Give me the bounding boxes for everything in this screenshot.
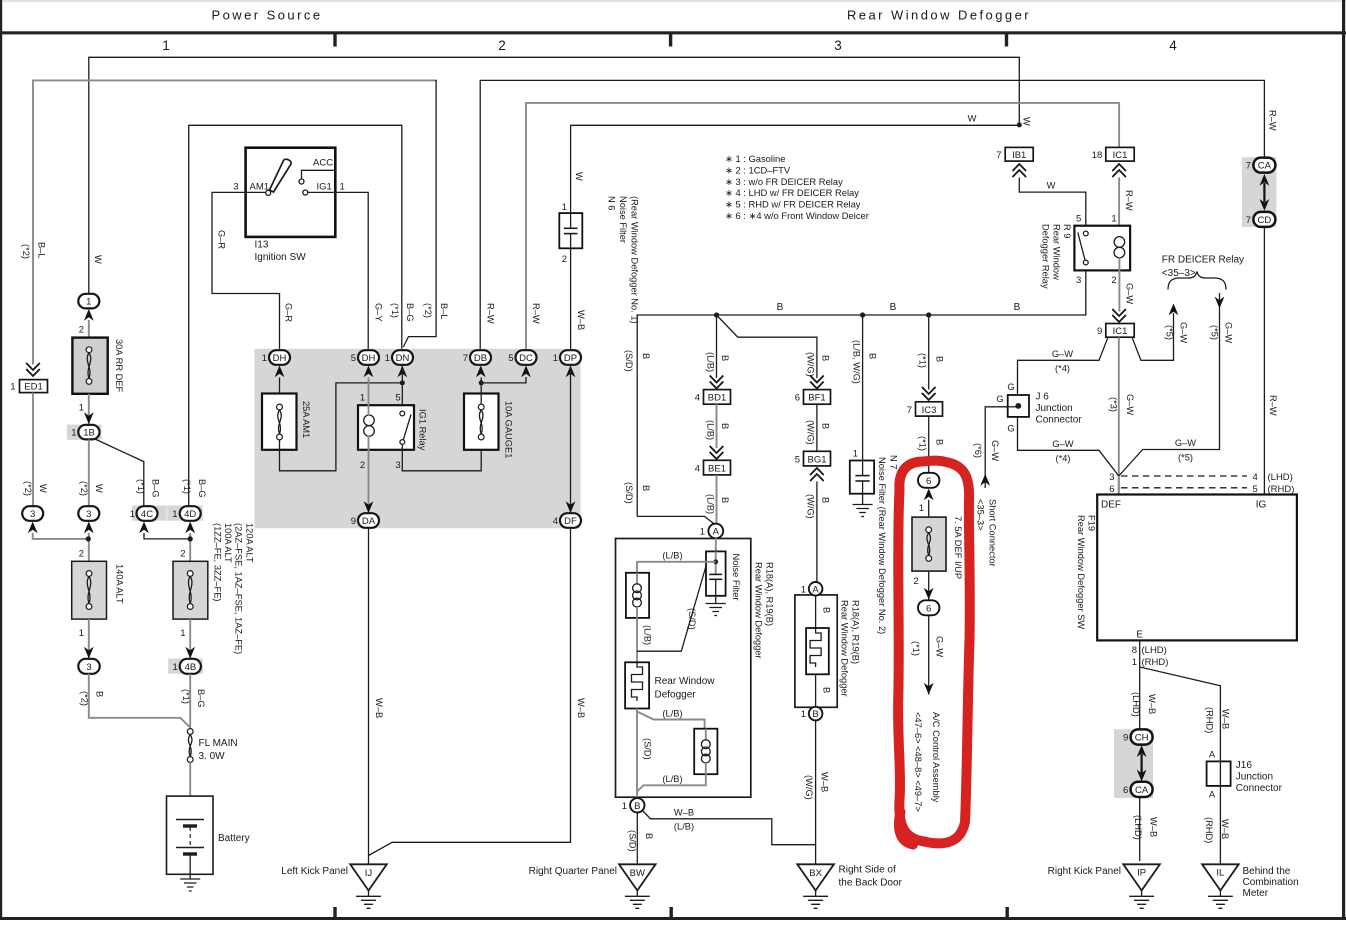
wire B to BX <box>643 811 816 845</box>
connector ED1 <box>10 363 47 393</box>
svg-text:W–B: W–B <box>576 698 586 718</box>
connector DC <box>508 350 536 377</box>
svg-text:B: B <box>94 691 104 697</box>
svg-text:B: B <box>777 302 784 313</box>
svg-text:(LHD): (LHD) <box>1131 692 1141 717</box>
wire bus to BF1 <box>717 315 817 378</box>
bottom page border <box>0 917 1346 920</box>
svg-text:6: 6 <box>1109 484 1114 495</box>
wire node to DC <box>481 377 526 383</box>
wire FL MAIN to battery <box>189 762 191 820</box>
svg-text:<47–6> <48–8> <49–7>: <47–6> <48–8> <49–7> <box>913 712 923 812</box>
svg-text:B: B <box>720 423 730 429</box>
connector A circle <box>637 516 723 538</box>
svg-text:∗ 6 : ∗4 w/o Front Window Deic: ∗ 6 : ∗4 w/o Front Window Deicer <box>725 210 869 221</box>
ground BW <box>529 864 656 908</box>
wire connector3 to node <box>33 533 88 539</box>
svg-text:1: 1 <box>622 801 627 812</box>
fuse 30A RR DEF <box>72 338 124 394</box>
svg-text:IC3: IC3 <box>922 405 937 416</box>
svg-text:N 7: N 7 <box>889 455 899 469</box>
svg-text:B: B <box>812 709 818 720</box>
wire BD1 to BE1 <box>716 404 718 448</box>
svg-text:4: 4 <box>695 393 700 404</box>
svg-text:(L/B): (L/B) <box>662 709 682 719</box>
wire DH5 to coil <box>368 378 370 416</box>
svg-text:N 6: N 6 <box>607 196 617 210</box>
svg-text:A/C Control Assembly: A/C Control Assembly <box>931 712 941 803</box>
svg-text:10A GAUGE1: 10A GAUGE1 <box>504 401 514 458</box>
svg-text:6: 6 <box>926 476 931 487</box>
svg-text:(LHD): (LHD) <box>1142 645 1167 656</box>
wire BE1 to A <box>716 475 718 525</box>
wire W top horizontal y57 <box>89 57 1020 301</box>
wire 1B diagonal to 4C <box>95 439 144 506</box>
junction connector J16 <box>1207 750 1283 801</box>
ground battery <box>180 874 200 891</box>
svg-text:9: 9 <box>351 516 356 527</box>
wire IG1 pin1 to DH5 <box>308 192 368 350</box>
svg-text:(*5): (*5) <box>1178 453 1193 463</box>
svg-text:W–B: W–B <box>1147 694 1157 714</box>
svg-text:BE1: BE1 <box>708 463 726 474</box>
wire 4D to 100A fuse <box>189 533 191 562</box>
svg-text:(W/G): (W/G) <box>806 494 816 519</box>
svg-text:IC1: IC1 <box>1113 326 1128 337</box>
wire relay pin3 to fuse GAUGE1 <box>402 440 481 471</box>
svg-text:18: 18 <box>1092 150 1103 161</box>
wire 3 to FL MAIN <box>89 674 190 728</box>
defogger element <box>625 662 715 708</box>
noise filter N6 <box>559 172 639 324</box>
bus wire B <box>637 270 1086 516</box>
svg-text:(*1): (*1) <box>182 479 192 494</box>
svg-text:G–W: G–W <box>990 440 1000 461</box>
wire 3 to 140A fuse <box>88 533 90 562</box>
internal noise filter <box>706 551 741 615</box>
svg-text:B: B <box>935 356 945 362</box>
svg-text:B: B <box>868 353 878 359</box>
svg-text:2: 2 <box>498 38 506 53</box>
svg-text:W: W <box>1022 117 1032 126</box>
svg-text:Behind the: Behind the <box>1243 866 1291 877</box>
svg-text:DN: DN <box>396 353 410 364</box>
svg-text:(*1): (*1) <box>911 641 921 656</box>
svg-text:25A AM1: 25A AM1 <box>301 401 311 438</box>
F19 pin labels and dashed LHD/RHD links <box>1109 472 1294 495</box>
wire coil to DA <box>368 436 370 514</box>
svg-text:1: 1 <box>1132 657 1137 668</box>
connector 1B <box>67 425 102 440</box>
svg-text:I13: I13 <box>255 240 269 251</box>
battery <box>167 796 250 874</box>
connector DN <box>385 350 413 377</box>
wire fuse to connector 6 lower <box>928 571 930 600</box>
svg-text:W–B: W–B <box>1221 709 1231 729</box>
connector 1 oval top <box>78 294 99 321</box>
svg-text:7: 7 <box>1246 161 1251 172</box>
svg-text:2: 2 <box>913 576 918 587</box>
wire A to internal noise filter <box>715 538 717 553</box>
svg-text:B–G: B–G <box>196 689 206 708</box>
ignition block gray box <box>255 349 581 528</box>
svg-text:(L/B): (L/B) <box>662 774 682 784</box>
fuse 7.5A DEF I/UP <box>912 516 963 579</box>
svg-text:(*6): (*6) <box>973 443 983 458</box>
svg-text:∗ 5 : RHD w/ FR DEICER Relay: ∗ 5 : RHD w/ FR DEICER Relay <box>725 199 861 210</box>
svg-text:B: B <box>821 607 831 613</box>
bottom tick marks <box>333 907 1009 918</box>
wire J6 left stub <box>1008 406 1019 408</box>
FR DEICER Relay brace <box>1162 255 1244 290</box>
svg-text:1: 1 <box>173 662 178 673</box>
wire B to ground BW <box>636 813 638 865</box>
svg-text:W–B: W–B <box>820 772 830 792</box>
svg-text:4: 4 <box>1169 38 1177 53</box>
svg-text:DF: DF <box>564 516 577 527</box>
svg-text:DP: DP <box>564 353 577 364</box>
svg-text:Rear Window Defogger SW: Rear Window Defogger SW <box>1076 515 1086 629</box>
svg-text:140A ALT: 140A ALT <box>115 564 125 604</box>
wire J6 bottom to F19 pin3 <box>1018 417 1119 476</box>
svg-text:7. 5A DEF I/UP: 7. 5A DEF I/UP <box>953 516 963 579</box>
svg-text:2: 2 <box>180 549 185 560</box>
svg-text:B: B <box>1014 302 1021 313</box>
svg-text:(*1): (*1) <box>918 353 928 368</box>
wire B right to ground BX <box>815 720 817 864</box>
node DB-DC <box>479 380 484 385</box>
svg-text:Meter: Meter <box>1243 888 1269 899</box>
svg-text:Defogger: Defogger <box>655 690 697 701</box>
ground BX <box>797 864 902 908</box>
svg-text:4: 4 <box>553 516 558 527</box>
svg-text:120A ALT: 120A ALT <box>244 523 254 563</box>
wire BF1 to BG1 <box>816 404 818 451</box>
connector B circle <box>622 798 645 812</box>
svg-text:5: 5 <box>395 393 400 404</box>
svg-text:B–G: B–G <box>151 479 161 498</box>
connector DH pin1 <box>262 350 290 377</box>
node bus N7 <box>860 312 865 317</box>
svg-text:W–B: W–B <box>374 698 384 718</box>
svg-text:B: B <box>890 302 897 313</box>
svg-text:G–W: G–W <box>1125 394 1135 415</box>
svg-text:R–W: R–W <box>486 303 496 324</box>
svg-text:(LHD): (LHD) <box>1268 472 1293 483</box>
svg-text:9: 9 <box>1123 733 1128 744</box>
svg-text:DH: DH <box>273 353 287 364</box>
connector BE1 <box>695 460 731 475</box>
svg-text:9: 9 <box>1097 326 1102 337</box>
svg-text:4B: 4B <box>185 662 197 673</box>
svg-text:(S/D): (S/D) <box>642 738 652 760</box>
fuse 100A ALT <box>173 561 208 619</box>
svg-text:IC1: IC1 <box>1113 150 1128 161</box>
connector BG1 <box>795 451 831 466</box>
svg-text:B: B <box>641 485 651 491</box>
wire R-W gray horizontal y103 <box>526 103 1119 350</box>
svg-text:Rear Window: Rear Window <box>1051 224 1061 280</box>
svg-text:(*2): (*2) <box>423 303 433 318</box>
svg-text:DC: DC <box>519 353 533 364</box>
wire 100A out <box>189 619 191 659</box>
connector 3 (left) <box>22 506 43 533</box>
svg-text:3: 3 <box>30 509 35 520</box>
defogger element right <box>806 628 829 674</box>
svg-text:3: 3 <box>1109 472 1114 483</box>
connector IC3 <box>907 402 943 416</box>
svg-text:4: 4 <box>695 463 700 474</box>
svg-text:W–B: W–B <box>1149 817 1159 837</box>
svg-text:G–W: G–W <box>935 636 945 657</box>
svg-text:(*4): (*4) <box>1055 364 1070 374</box>
wire R-W top horizontal y80 right <box>480 80 1264 350</box>
svg-text:B: B <box>634 801 640 812</box>
svg-text:W: W <box>38 484 48 493</box>
svg-text:B: B <box>644 833 654 839</box>
svg-text:5: 5 <box>351 353 356 364</box>
svg-text:(W/G): (W/G) <box>806 420 816 445</box>
svg-text:B: B <box>821 687 831 693</box>
svg-text:(*1): (*1) <box>181 689 191 704</box>
svg-text:B: B <box>820 497 830 503</box>
svg-text:BW: BW <box>630 868 645 879</box>
svg-text:1: 1 <box>801 584 806 595</box>
svg-text:∗ 3 : w/o FR DEICER Relay: ∗ 3 : w/o FR DEICER Relay <box>725 176 843 187</box>
svg-text:IJ: IJ <box>365 868 373 879</box>
svg-text:(L/B, W/G): (L/B, W/G) <box>852 340 862 384</box>
svg-text:Rear Window Defogger: Rear Window Defogger <box>847 8 1031 23</box>
svg-text:4D: 4D <box>184 509 196 520</box>
svg-text:Right Side of: Right Side of <box>839 865 896 876</box>
svg-text:(*2): (*2) <box>21 244 31 259</box>
svg-text:1B: 1B <box>83 428 95 439</box>
node bus IC3 <box>926 312 931 317</box>
wire N6 to DP <box>570 248 572 350</box>
svg-text:R–W: R–W <box>1124 190 1134 211</box>
svg-text:(Rear Window Defogger No. 1): (Rear Window Defogger No. 1) <box>630 196 640 324</box>
wire IC1-9 fan right to deicer <box>1132 313 1174 360</box>
svg-text:W: W <box>94 484 104 493</box>
svg-text:BF1: BF1 <box>808 393 825 404</box>
svg-text:1: 1 <box>700 527 705 538</box>
svg-text:DEF: DEF <box>1101 500 1121 511</box>
svg-text:1: 1 <box>172 509 177 520</box>
connector 6 lower <box>918 600 939 615</box>
svg-text:Rear Window Defogger: Rear Window Defogger <box>754 562 764 659</box>
legend asterisk notes <box>725 153 869 221</box>
svg-text:1: 1 <box>385 353 390 364</box>
svg-text:Rear Window: Rear Window <box>655 676 716 687</box>
svg-text:A: A <box>713 527 720 538</box>
svg-text:2: 2 <box>562 254 567 265</box>
svg-text:1: 1 <box>919 503 924 514</box>
wire DA to ground IJ <box>368 528 370 865</box>
wire GAUGE1 to DB <box>480 378 482 405</box>
svg-text:3. 0W: 3. 0W <box>199 751 226 762</box>
node DN-relay5 <box>400 380 405 385</box>
junction connector J6 <box>1008 392 1083 426</box>
svg-text:G–W: G–W <box>1052 349 1073 359</box>
wire B-L top horizontal y80 left <box>33 80 435 364</box>
wire filter dot to coil1 <box>637 562 716 574</box>
svg-text:R–W: R–W <box>531 303 541 324</box>
svg-text:(*1): (*1) <box>136 479 146 494</box>
svg-text:DH: DH <box>362 353 376 364</box>
svg-text:BX: BX <box>809 868 822 879</box>
svg-text:1: 1 <box>180 628 185 639</box>
svg-text:(*3): (*3) <box>1109 397 1119 412</box>
switch lever <box>270 159 292 192</box>
svg-text:5: 5 <box>1076 214 1081 225</box>
wire 4B to FL MAIN <box>189 674 191 729</box>
fuse 25A AM1 <box>262 394 311 450</box>
wire 6 to A/C control assembly <box>928 615 930 694</box>
svg-text:BG1: BG1 <box>807 454 826 465</box>
svg-text:W–B: W–B <box>1220 819 1230 839</box>
svg-text:1: 1 <box>79 403 84 414</box>
svg-text:B: B <box>641 353 651 359</box>
wire element to coil2 <box>637 712 705 730</box>
wire DN down to relay pin5 <box>401 366 403 412</box>
connector CH/CA pair <box>1114 729 1153 798</box>
ground IL <box>1202 864 1299 908</box>
connector DF <box>553 513 581 528</box>
svg-text:(S/D): (S/D) <box>624 482 634 504</box>
svg-text:FL MAIN: FL MAIN <box>199 738 238 749</box>
svg-text:IP: IP <box>1137 868 1146 879</box>
svg-text:Connector: Connector <box>1036 415 1083 426</box>
svg-text:R 9: R 9 <box>1062 224 1072 238</box>
svg-text:Ignition SW: Ignition SW <box>255 252 307 263</box>
relay R9 Rear Window Defogger Relay <box>1041 214 1131 289</box>
svg-text:B: B <box>820 355 830 361</box>
svg-text:(W/G): (W/G) <box>806 352 816 377</box>
svg-text:A: A <box>1209 790 1216 801</box>
connector B circle right <box>801 707 823 721</box>
svg-text:E: E <box>1136 630 1143 641</box>
wire coil2 to B <box>637 774 706 791</box>
svg-text:B: B <box>720 497 730 503</box>
svg-text:2: 2 <box>360 460 365 471</box>
svg-text:Connector: Connector <box>1236 783 1283 794</box>
ignition switch I13 <box>233 148 345 263</box>
connector DP <box>553 350 581 377</box>
svg-text:B–G: B–G <box>197 479 207 498</box>
svg-text:1: 1 <box>130 509 135 520</box>
svg-text:the Back Door: the Back Door <box>839 878 903 889</box>
svg-text:G–R: G–R <box>217 230 227 249</box>
svg-text:IL: IL <box>1216 868 1224 879</box>
connector 4C <box>130 506 167 534</box>
wire FR DEICER down branch <box>1119 293 1220 476</box>
svg-text:1: 1 <box>340 182 345 193</box>
svg-text:(L/B): (L/B) <box>705 420 715 440</box>
svg-text:B: B <box>935 439 945 445</box>
svg-text:Battery: Battery <box>218 833 250 844</box>
svg-text:ED1: ED1 <box>24 382 42 393</box>
svg-text:A: A <box>812 584 819 595</box>
svg-text:IG: IG <box>1256 500 1267 511</box>
svg-text:∗ 2 : 1CD–FTV: ∗ 2 : 1CD–FTV <box>725 164 791 175</box>
svg-text:J16: J16 <box>1236 760 1253 771</box>
svg-text:∗ 4 : LHD w/ FR DEICER Relay: ∗ 4 : LHD w/ FR DEICER Relay <box>725 187 859 198</box>
connector BD1 <box>695 390 731 405</box>
svg-text:1: 1 <box>10 382 15 393</box>
svg-text:3: 3 <box>233 182 238 193</box>
node W junction <box>1017 122 1022 127</box>
wire element to B right <box>815 674 817 707</box>
svg-text:W: W <box>93 255 103 264</box>
connector BF1 <box>795 390 831 405</box>
svg-text:7: 7 <box>1246 215 1251 226</box>
svg-text:Power Source: Power Source <box>211 8 322 23</box>
coil 1 <box>626 573 649 618</box>
page top edge line <box>0 0 1346 2</box>
svg-text:R18(A), R19(B): R18(A), R19(B) <box>765 562 775 626</box>
relay IG1 <box>358 393 428 472</box>
svg-text:(RHD): (RHD) <box>1205 707 1215 733</box>
connector IC1 pin18 <box>1092 147 1134 177</box>
svg-text:W–B: W–B <box>674 808 694 818</box>
svg-text:A: A <box>1209 750 1216 761</box>
svg-text:1: 1 <box>79 628 84 639</box>
svg-text:CA: CA <box>1135 785 1149 796</box>
svg-text:(*2): (*2) <box>23 481 33 496</box>
wire short connector <box>985 407 1016 488</box>
svg-text:(*4): (*4) <box>1056 454 1071 464</box>
svg-text:6: 6 <box>795 393 800 404</box>
svg-text:1: 1 <box>853 449 858 460</box>
svg-text:3: 3 <box>395 460 400 471</box>
svg-text:Noise Filter: Noise Filter <box>731 554 741 601</box>
svg-text:W: W <box>574 172 584 181</box>
wire coil1 to defogger element <box>636 618 638 662</box>
fuse 140A ALT <box>72 561 125 619</box>
svg-text:G: G <box>996 394 1003 404</box>
svg-text:IG1 Relay: IG1 Relay <box>418 409 428 451</box>
svg-text:W–B: W–B <box>576 310 586 330</box>
svg-text:G–R: G–R <box>284 303 294 322</box>
node bus BD1 <box>714 312 719 317</box>
svg-text:Junction: Junction <box>1236 772 1273 783</box>
wire AM1 pin3 to DH <box>212 192 280 350</box>
svg-text:1: 1 <box>71 428 76 439</box>
svg-text:5: 5 <box>795 454 800 465</box>
svg-text:(L/B): (L/B) <box>674 822 694 832</box>
svg-text:R–W: R–W <box>1268 110 1278 131</box>
svg-text:1: 1 <box>162 38 170 53</box>
svg-text:3: 3 <box>1076 275 1081 286</box>
svg-text:IG1: IG1 <box>317 182 332 193</box>
fusible link FL MAIN 3.0W <box>187 729 237 763</box>
svg-text:1: 1 <box>562 202 567 213</box>
wire DH1 to fuse AM1 <box>279 378 281 408</box>
right page border <box>1342 0 1345 920</box>
svg-text:G–W: G–W <box>1175 438 1196 448</box>
contacts and blade <box>400 411 405 416</box>
top tick marks <box>333 34 1008 47</box>
wire J16 to ground IL <box>1219 761 1221 864</box>
svg-text:Right Kick Panel: Right Kick Panel <box>1048 866 1121 877</box>
svg-text:(*1): (*1) <box>390 303 400 318</box>
svg-text:R–W: R–W <box>1268 395 1278 416</box>
svg-text:J 6: J 6 <box>1036 392 1050 403</box>
svg-text:B–L: B–L <box>37 242 47 259</box>
connector 4B <box>168 659 203 674</box>
svg-text:G: G <box>1007 382 1014 392</box>
svg-text:(2AZ–FSE, 1AZ–FSE, 1AZ–FE): (2AZ–FSE, 1AZ–FSE, 1AZ–FE) <box>234 523 244 654</box>
